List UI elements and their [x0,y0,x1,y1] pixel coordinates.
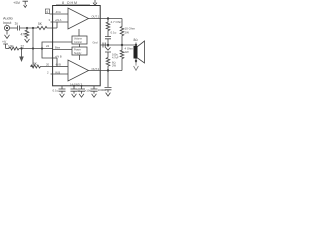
wire pin to box 1 [53,41,72,43]
bottom cap chain 2: 1u [73,85,75,87]
svg-text:0.1u: 0.1u [53,89,59,93]
svg-text:Supply: Supply [74,52,82,55]
ground arrow under node C [21,49,23,57]
speaker cone [138,41,145,63]
A1 compensation stub [78,29,80,36]
title underline [56,3,90,5]
internal box 2 [72,47,87,55]
node C junction [20,47,22,49]
bias supply bar [3,44,8,49]
ground under speaker [134,63,139,70]
internal box 1 [72,36,87,44]
series cap on rail [103,43,105,48]
svg-text:Input: Input [3,21,12,25]
bottom cap chain 3: 10u [81,85,83,87]
svg-text:-IN B: -IN B [55,63,61,67]
resistor 10K [9,47,19,50]
zobel resistor [106,19,110,37]
svg-text:2W: 2W [112,63,116,67]
node D junction on bias rail [32,47,34,49]
wire node B down to bias rail [31,28,34,67]
ground under 47K [25,39,30,42]
wire bias rail to box 2 [53,49,72,51]
svg-text:Bias: Bias [55,46,61,50]
capacitor C1 [18,26,20,31]
svg-text:4.7uF: 4.7uF [112,55,119,59]
speaker terminals [135,43,137,64]
svg-text:4: 4 [46,10,48,14]
zobel cap [105,37,111,45]
out rail wire to speaker [100,44,136,46]
svg-text:4.7 Ohm: 4.7 Ohm [111,20,123,24]
resistor 8K [31,65,54,68]
node E junction [41,47,43,49]
IC U1 outline [53,6,101,86]
svg-text:24: 24 [46,44,50,48]
svg-text:IN B: IN B [55,70,60,74]
A1 noninverting input wire [51,21,69,23]
svg-text:1u: 1u [15,22,19,26]
svg-text:1000u: 1000u [98,88,107,92]
resistor 47K [25,29,29,38]
zobel chain from OUT1: junction [107,17,109,19]
box link [79,44,81,47]
wire jack to C1 [10,27,17,29]
node A junction [26,27,28,29]
svg-text:OUT 1: OUT 1 [92,15,100,19]
svg-text:20: 20 [46,63,50,67]
A1 inverting input wire, pin 4 [45,9,49,14]
bias rail wire [19,48,53,50]
A2 lower input wire [51,73,69,75]
supply arrow head [24,5,27,7]
svg-text:22: 22 [21,44,25,48]
svg-text:+V: +V [2,40,7,44]
wire node E up to pin [42,42,53,49]
inside wire y58 [53,57,57,59]
mid chain resistor [106,58,110,71]
op-amp A1 [68,8,89,29]
A2 upper input wire [53,66,68,68]
input jack J1 [4,25,9,30]
jog from pin 58 wire [56,58,58,67]
1000u cap chain from OUT2 [105,71,112,97]
svg-text:0.1u: 0.1u [111,31,117,35]
ground under jack [5,31,10,39]
svg-text:Gnd: Gnd [93,41,98,45]
svg-text:2W: 2W [125,31,130,35]
junction G [121,44,123,46]
wire node E down to pin [42,49,53,59]
svg-text:Control: Control [74,41,82,44]
resistor 5K [37,26,57,29]
svg-text:+5V: +5V [13,0,21,5]
supply bar symbol [23,1,29,4]
box 2 to A2 stub [79,55,81,60]
A2 output wire OUT2 [89,70,123,72]
svg-text:2W: 2W [125,50,130,54]
svg-text:+IN A: +IN A [55,18,62,22]
speaker driver box [134,46,138,59]
wire bar to 10K [6,48,9,50]
svg-text:-IN A: -IN A [55,10,61,14]
svg-text:+IN B: +IN B [55,54,62,58]
svg-text:OUT 2: OUT 2 [92,67,100,71]
svg-text:8Ω: 8Ω [134,38,139,42]
load chain from OUT1 corner [120,19,124,46]
op-amp A2 [68,60,89,81]
jog 5K wire up to +input [56,22,58,28]
junction F [107,44,109,46]
V+ arrow into IC top [93,0,97,5]
node B junction [32,27,34,29]
junction H on OUT2 [107,69,109,71]
bottom cap chain 4 [91,86,98,97]
load chain lower resistor [120,45,124,71]
wire C1 to node A [20,27,37,29]
A1 output wire OUT1 [89,18,123,20]
electrolytic cap below junction F [105,45,111,58]
